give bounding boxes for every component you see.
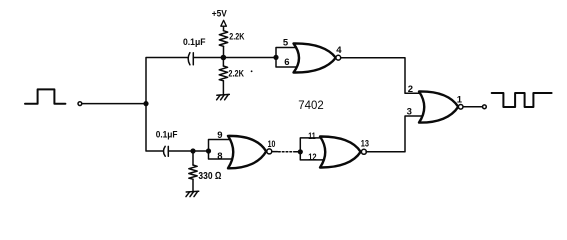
dashed wire gate2 out to gate3 in xyxy=(272,151,278,153)
wire gate1 output to final gate pin2 xyxy=(341,58,424,93)
svg-text:4: 4 xyxy=(336,45,342,56)
svg-text:2.2K: 2.2K xyxy=(229,32,244,43)
wire gate4 output to terminal xyxy=(463,106,482,108)
capacitor C2 0.1uF (bottom) xyxy=(163,146,165,156)
wire +5V to R1 xyxy=(223,26,225,31)
resistor R1 2.2K (pull-up) xyxy=(219,31,227,47)
ground (divider) xyxy=(217,94,230,99)
gate1 input jumper box (pins 5-6) xyxy=(276,48,297,68)
svg-text:3: 3 xyxy=(407,106,412,117)
+5V arrow terminal xyxy=(221,20,227,26)
svg-text:12: 12 xyxy=(308,152,316,163)
bubble gate3 xyxy=(361,149,366,154)
svg-text:10: 10 xyxy=(268,139,276,150)
svg-text:330 Ω: 330 Ω xyxy=(198,170,221,182)
node input junction xyxy=(143,101,148,106)
node gate1 inputs xyxy=(273,55,278,60)
node C2/R3 xyxy=(190,148,195,153)
svg-text:2.2K: 2.2K xyxy=(228,68,244,79)
wire input terminal to junction xyxy=(82,103,146,105)
svg-text:0.1μF: 0.1μF xyxy=(156,129,178,139)
ground (R3) xyxy=(186,191,199,196)
wire R3 to ground xyxy=(192,179,194,191)
wire cap to gate1 input box xyxy=(193,57,276,59)
node gate3 inputs xyxy=(298,149,303,154)
node divider xyxy=(221,55,227,61)
svg-text:2: 2 xyxy=(408,84,413,95)
svg-text:6: 6 xyxy=(284,57,289,68)
output pulse waveform xyxy=(492,93,552,107)
wire gate3 output to final gate pin3 xyxy=(366,116,424,152)
svg-text:7402: 7402 xyxy=(298,100,323,112)
svg-text:8: 8 xyxy=(217,151,222,162)
svg-text:9: 9 xyxy=(217,130,222,141)
wire junction down to bottom branch xyxy=(146,104,163,151)
wire R1 to node xyxy=(223,46,225,57)
resistor R3 330 ohm xyxy=(189,165,197,179)
wire R2 to ground xyxy=(222,81,224,95)
op NOR gate U1d (pins 2,3 -> 1) xyxy=(419,91,458,122)
bubble gate2 xyxy=(267,149,272,154)
gate2 input jumper box (pins 9-8) xyxy=(209,140,234,160)
svg-text:13: 13 xyxy=(361,138,369,149)
gate3 input jumper box (pins 11-12) xyxy=(300,138,325,160)
wire cap to gate2 input box xyxy=(168,150,208,152)
wire junction up to top branch xyxy=(146,58,187,104)
node gate2 inputs xyxy=(206,148,211,153)
output terminal circle xyxy=(483,105,487,109)
svg-text:0.1μF: 0.1μF xyxy=(183,37,206,47)
capacitor C1 0.1uF (top) xyxy=(188,53,190,65)
input terminal circle xyxy=(78,102,82,106)
svg-text:+5V: +5V xyxy=(212,8,227,18)
bubble gate1 xyxy=(336,55,341,60)
input pulse waveform xyxy=(25,89,65,103)
svg-text:1: 1 xyxy=(457,94,463,105)
wire node to R3 xyxy=(192,151,194,165)
svg-text:5: 5 xyxy=(283,37,289,48)
op NOR gate U1b (pins 9,8 -> 10) xyxy=(228,136,266,168)
op NOR gate U1c (pins 11,12 -> 13) xyxy=(320,136,361,167)
wire node to R2 xyxy=(222,58,224,67)
op NOR gate U1a (pins 5,6 -> 4) xyxy=(294,43,336,72)
svg-text:11: 11 xyxy=(308,131,316,142)
bubble gate4 xyxy=(458,105,463,110)
resistor R2 2.2K (pull-down) xyxy=(219,66,227,81)
